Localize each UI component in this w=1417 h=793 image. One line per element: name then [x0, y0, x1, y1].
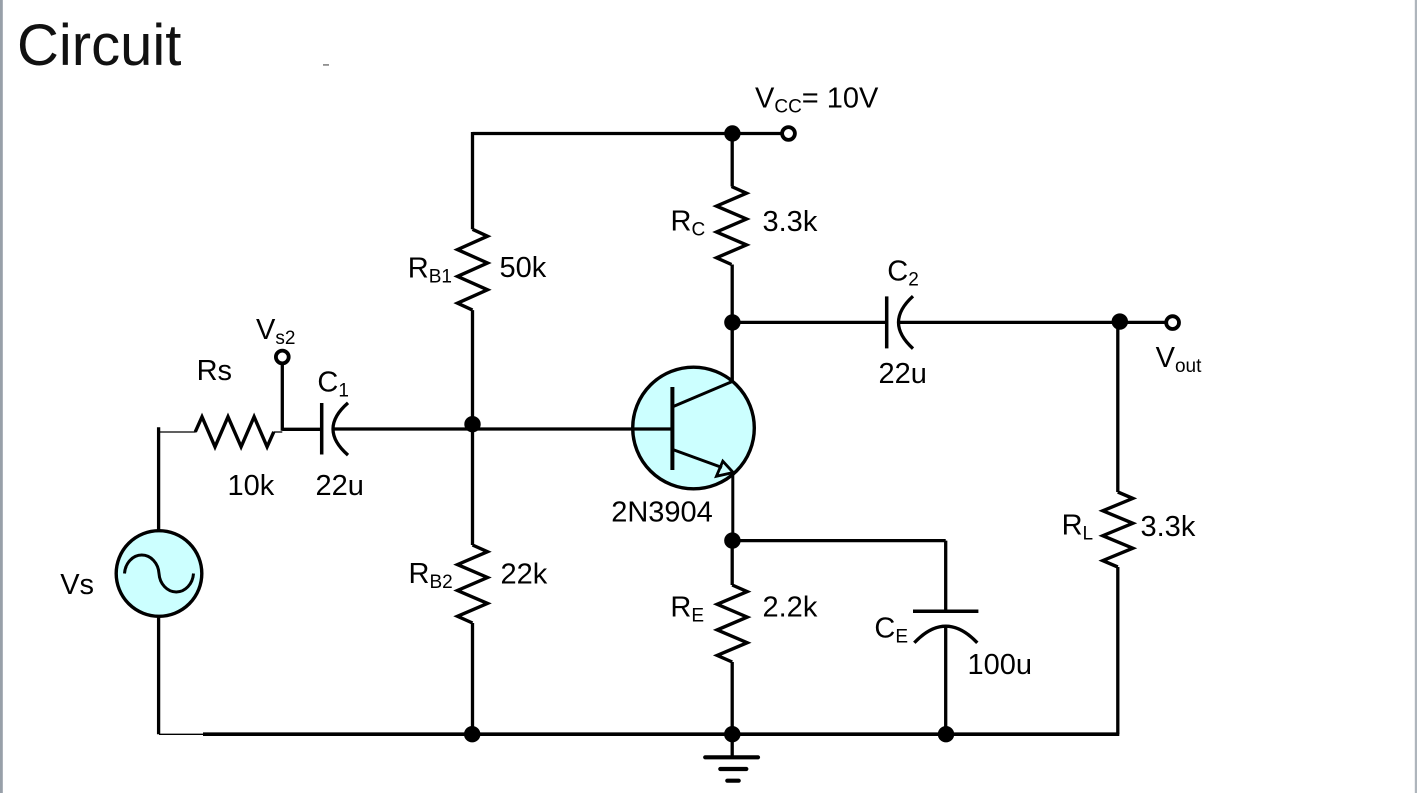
svg-text:100u: 100u [968, 649, 1033, 681]
svg-text:10k: 10k [228, 470, 275, 502]
svg-text:22k: 22k [501, 559, 548, 591]
svg-text:22u: 22u [316, 470, 364, 502]
svg-text:Vs: Vs [60, 569, 94, 601]
svg-text:3.3k: 3.3k [1141, 511, 1196, 543]
svg-text:3.3k: 3.3k [763, 206, 818, 238]
svg-text:22u: 22u [879, 358, 927, 390]
svg-text:2.2k: 2.2k [763, 592, 818, 624]
svg-text:Rs: Rs [197, 355, 232, 387]
svg-text:Circuit: Circuit [17, 13, 181, 78]
svg-text:VCC= 10V: VCC= 10V [755, 83, 879, 118]
svg-text:2N3904: 2N3904 [611, 497, 713, 529]
svg-text:50k: 50k [500, 252, 547, 284]
